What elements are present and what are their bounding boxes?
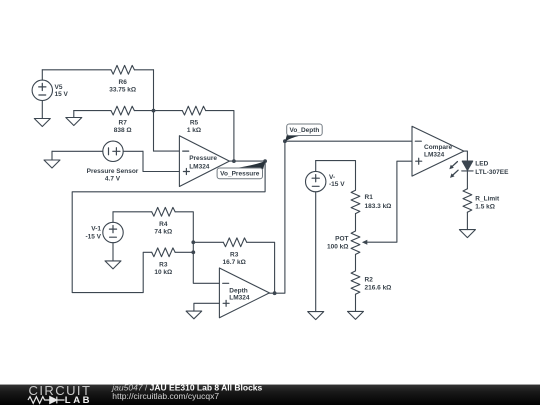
- wire compare output to LED: [464, 151, 468, 161]
- wire R_Limit to ground: [466, 212, 468, 229]
- svg-text:Pressure: Pressure: [189, 155, 217, 162]
- wire R2 to ground: [355, 294, 357, 311]
- ground (V-): [308, 312, 324, 320]
- svg-text:LED: LED: [475, 161, 488, 168]
- wire V- top to R1: [316, 161, 356, 191]
- wire R1 to POT: [355, 214, 357, 231]
- svg-text:Vo_Depth: Vo_Depth: [290, 127, 320, 134]
- svg-text:-15 V: -15 V: [85, 233, 101, 240]
- svg-text:http://circuitlab.com/cyucqx7: http://circuitlab.com/cyucqx7: [112, 391, 219, 401]
- wire to op-amp minus: [154, 150, 180, 152]
- resistor R7: [111, 106, 134, 115]
- svg-text:16.7 kΩ: 16.7 kΩ: [223, 259, 246, 266]
- resistor R1: [351, 190, 360, 213]
- svg-text:R3: R3: [230, 252, 239, 259]
- pressure sensor source: [52, 141, 143, 161]
- svg-text:33.75 kΩ: 33.75 kΩ: [109, 87, 136, 94]
- wire junction to R5: [154, 110, 183, 112]
- wire R3 16.7k to output: [247, 242, 275, 293]
- resistor R2: [351, 271, 360, 294]
- wire R7 right: [134, 110, 153, 112]
- wire depth output to Vo_Depth node: [269, 141, 285, 293]
- svg-text:838 Ω: 838 Ω: [114, 127, 132, 134]
- ground (R2): [348, 311, 364, 319]
- wire gnd to R7: [74, 110, 111, 112]
- wire LED to R_Limit: [466, 171, 468, 189]
- svg-text:LM324: LM324: [189, 164, 210, 171]
- LED D1: [449, 161, 473, 178]
- resistor R5: [182, 106, 205, 115]
- wire R4 right down to minus: [175, 212, 219, 283]
- POT wiper arrow: [367, 161, 413, 242]
- svg-text:Depth: Depth: [229, 287, 247, 294]
- flag Vo_Depth: [285, 124, 322, 141]
- wire V5 top to R6: [42, 69, 111, 71]
- svg-text:V-1: V-1: [91, 226, 101, 233]
- node R6/R7/R5 junction: [152, 109, 156, 113]
- ground (sensor): [44, 151, 60, 168]
- voltage source V-: [306, 161, 326, 312]
- node output Vo_Pressure: [263, 159, 267, 163]
- svg-text:LAB: LAB: [65, 395, 92, 405]
- wire op-amp output: [229, 160, 265, 162]
- svg-text:R7: R7: [119, 120, 128, 127]
- footer logo resistor-diode glyph: [28, 397, 65, 404]
- node feedback/output junction: [232, 159, 236, 163]
- node Vo_Depth: [283, 139, 287, 143]
- svg-text:4.7 V: 4.7 V: [105, 176, 121, 183]
- ground (R_Limit): [459, 230, 475, 238]
- svg-text:R6: R6: [119, 79, 128, 86]
- wire R3 right: [175, 251, 193, 253]
- svg-text:Vo_Pressure: Vo_Pressure: [220, 171, 260, 178]
- svg-text:100 kΩ: 100 kΩ: [327, 244, 348, 251]
- wire V-1 to R4: [113, 211, 152, 213]
- svg-text:1.5 kΩ: 1.5 kΩ: [475, 204, 495, 211]
- potentiometer POT: [351, 231, 360, 254]
- svg-text:POT: POT: [335, 236, 348, 243]
- svg-text:10 kΩ: 10 kΩ: [154, 269, 172, 276]
- svg-text:R2: R2: [365, 277, 374, 284]
- svg-text:R1: R1: [365, 194, 374, 201]
- svg-text:1 kΩ: 1 kΩ: [187, 127, 201, 134]
- footer bar: [0, 385, 540, 405]
- voltage source V5: [32, 70, 52, 119]
- ground (Depth plus): [186, 311, 202, 319]
- node depth output junction: [273, 291, 277, 295]
- svg-text:R3: R3: [159, 262, 168, 269]
- svg-text:216.6 kΩ: 216.6 kΩ: [365, 285, 392, 292]
- wire R5 right and down to output: [206, 111, 234, 162]
- svg-text:R_Limit: R_Limit: [475, 195, 500, 202]
- svg-text:R5: R5: [190, 120, 199, 127]
- flag Vo_Pressure: [217, 161, 265, 179]
- wire depth plus to ground: [194, 303, 220, 311]
- svg-text:-15 V: -15 V: [329, 181, 345, 188]
- wire output wrap to depth stage: [72, 161, 265, 293]
- svg-text:LM324: LM324: [424, 152, 445, 159]
- resistor R6: [111, 65, 134, 74]
- wire Vo_Depth to compare minus: [285, 140, 412, 142]
- svg-text:R4: R4: [159, 221, 168, 228]
- node R4/R3 feedback junction: [191, 240, 195, 244]
- op-amp U3 Compare LM324: [412, 126, 464, 176]
- voltage source V-1: [103, 212, 123, 261]
- svg-text:15 V: 15 V: [55, 91, 69, 98]
- svg-text:74 kΩ: 74 kΩ: [154, 229, 172, 236]
- wire POT to R2: [355, 254, 357, 271]
- svg-text:V5: V5: [55, 84, 63, 91]
- resistor R3 16.7k: [223, 238, 246, 247]
- ground (V5): [34, 119, 50, 127]
- wire feedback to R3 16.7k: [193, 241, 223, 243]
- svg-text:LTL-307EE: LTL-307EE: [475, 169, 509, 176]
- op-amp U1 Pressure LM324: [179, 136, 229, 187]
- svg-text:Pressure Sensor: Pressure Sensor: [87, 168, 139, 175]
- wire sensor to op-amp plus: [143, 151, 179, 171]
- node R3 10k junction: [191, 250, 195, 254]
- wire R6 right: [134, 69, 153, 71]
- resistor R3 10k: [152, 248, 175, 257]
- svg-text:Compare: Compare: [424, 144, 453, 151]
- svg-text:183.3 kΩ: 183.3 kΩ: [365, 203, 392, 210]
- resistor R4: [152, 207, 175, 216]
- ground (V-1): [105, 261, 121, 269]
- resistor R_Limit: [463, 189, 472, 212]
- wire vertical to inverting input: [153, 70, 155, 151]
- op-amp U2 Depth LM324: [219, 268, 269, 318]
- svg-text:LM324: LM324: [229, 295, 250, 302]
- ground (R7 left): [66, 111, 82, 126]
